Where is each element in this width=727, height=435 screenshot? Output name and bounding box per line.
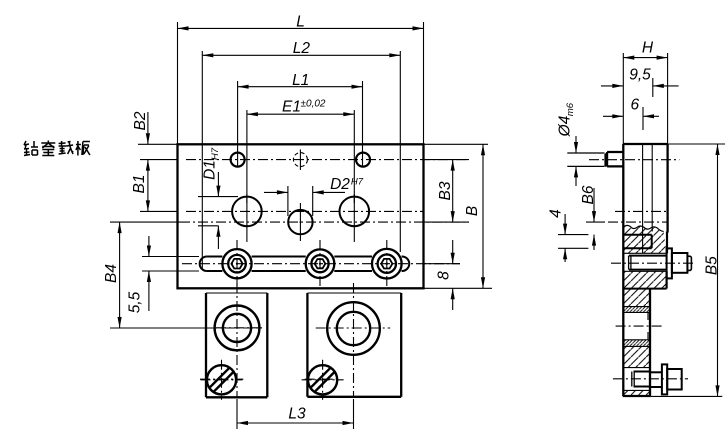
svg-text:D2: D2 [330, 176, 350, 193]
svg-text:8: 8 [436, 271, 453, 280]
svg-text:L2: L2 [293, 40, 311, 57]
svg-text:m6: m6 [565, 102, 576, 116]
svg-text:D1: D1 [202, 160, 219, 180]
svg-text:L1: L1 [292, 72, 309, 89]
svg-text:L3: L3 [288, 406, 306, 423]
svg-text:E1: E1 [282, 99, 301, 116]
svg-text:B4: B4 [103, 264, 120, 283]
svg-text:B5: B5 [704, 256, 721, 275]
svg-text:Ø4: Ø4 [557, 115, 574, 137]
svg-text:6: 6 [630, 97, 639, 114]
svg-text:H7: H7 [351, 177, 364, 188]
svg-text:L: L [296, 13, 305, 30]
svg-text:H: H [642, 40, 654, 57]
svg-text:B3: B3 [437, 181, 454, 200]
svg-text:5,5: 5,5 [127, 291, 144, 313]
svg-text:H7: H7 [210, 147, 221, 160]
svg-text:4: 4 [548, 209, 565, 218]
svg-text:±0,02: ±0,02 [301, 99, 326, 110]
svg-text:B2: B2 [132, 111, 149, 130]
svg-text:9,5: 9,5 [629, 67, 651, 84]
svg-text:B6: B6 [580, 185, 597, 204]
svg-text:B: B [464, 206, 481, 216]
svg-text:B1: B1 [131, 175, 148, 194]
